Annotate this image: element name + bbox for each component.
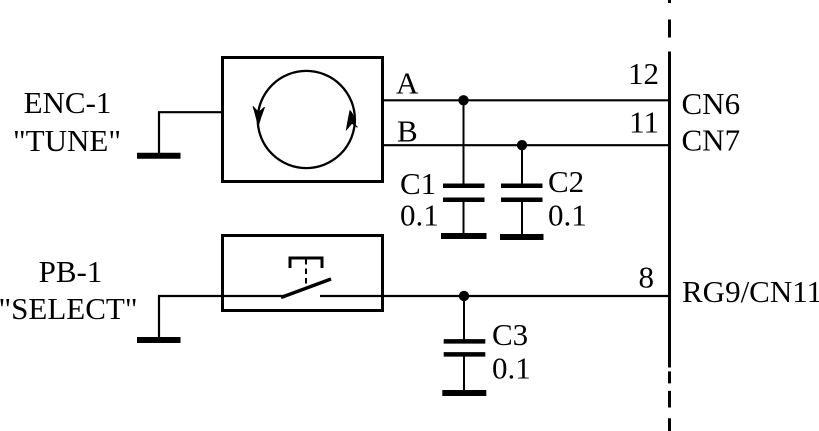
- connector boundary dashed top: [668, 0, 671, 38]
- connector boundary solid: [668, 52, 671, 368]
- svg-text:"SELECT": "SELECT": [0, 291, 137, 326]
- pushbutton actuator dashed stem: [305, 259, 307, 288]
- svg-text:0.1: 0.1: [400, 198, 439, 233]
- ground G-C3: [442, 390, 486, 396]
- connector boundary dashed bottom: [668, 371, 671, 431]
- wire pushbutton output: [320, 295, 669, 297]
- svg-text:0.1: 0.1: [548, 198, 587, 233]
- encoder rotation circle: [258, 71, 355, 168]
- encoder ENC-1 box: [223, 58, 383, 182]
- encoder arrowhead left (down): [253, 107, 265, 126]
- svg-text:"TUNE": "TUNE": [13, 123, 121, 158]
- svg-text:PB-1: PB-1: [39, 254, 103, 289]
- svg-text:12: 12: [628, 56, 659, 91]
- ground G1: [137, 153, 181, 159]
- wire pushbutton to ground: [159, 296, 284, 337]
- svg-text:ENC-1: ENC-1: [24, 85, 112, 120]
- pushbutton actuator bracket: [290, 258, 322, 268]
- node junction on wire A: [458, 95, 468, 105]
- ground G-C1: [441, 233, 487, 239]
- svg-text:CN6: CN6: [682, 86, 741, 121]
- svg-text:8: 8: [639, 260, 655, 295]
- ground G2: [137, 337, 181, 343]
- capacitor C2: [501, 145, 543, 234]
- ground G-C2: [500, 234, 544, 240]
- svg-text:C2: C2: [548, 164, 584, 199]
- pushbutton switch lever: [281, 279, 331, 298]
- capacitor C3: [444, 296, 486, 390]
- svg-text:CN7: CN7: [682, 123, 741, 158]
- svg-text:RG9/CN11: RG9/CN11: [682, 274, 819, 309]
- encoder arrowhead right (up): [347, 111, 358, 130]
- svg-text:C3: C3: [492, 317, 528, 352]
- capacitor C1: [443, 100, 485, 233]
- svg-text:C1: C1: [400, 166, 436, 201]
- svg-text:A: A: [396, 66, 419, 101]
- svg-text:B: B: [397, 114, 418, 149]
- node junction on pushbutton output: [459, 291, 469, 301]
- svg-text:0.1: 0.1: [492, 351, 531, 386]
- wire encoder common to ground: [159, 112, 222, 153]
- pushbutton PB-1 box: [223, 236, 383, 311]
- wire B: [383, 144, 669, 146]
- node junction on wire B: [517, 140, 527, 150]
- svg-text:11: 11: [629, 105, 659, 140]
- wire A: [383, 99, 669, 101]
